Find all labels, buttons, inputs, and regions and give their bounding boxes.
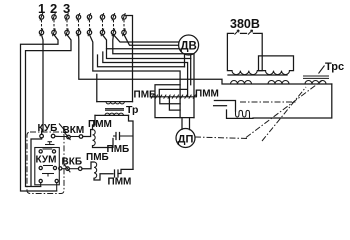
coil PMB bbox=[94, 162, 97, 178]
button KUB bbox=[40, 134, 55, 144]
wire enclosure to VKB bbox=[62, 168, 67, 170]
Tr secondary wire bbox=[95, 114, 129, 116]
wire DV bottom stub 2 bbox=[190, 55, 192, 59]
wire S7 staircase branch bbox=[113, 35, 194, 118]
transformer T1 primary box bbox=[227, 33, 262, 74]
enclosure boundary (dash-dot) bbox=[27, 132, 64, 194]
svg-text:ПМБ: ПМБ bbox=[86, 152, 109, 163]
coil PMM bbox=[93, 130, 96, 146]
svg-text:Тр: Тр bbox=[126, 104, 138, 116]
limit switch VKM actuator arrow bbox=[59, 124, 67, 133]
interlock contact PMB bbox=[113, 133, 126, 140]
svg-text:ПММ: ПММ bbox=[195, 89, 219, 100]
svg-text:ДП: ДП bbox=[178, 134, 194, 146]
interlock contact PMM bbox=[115, 170, 119, 177]
limit switch VKM contacts bbox=[67, 135, 83, 139]
contact on KUM box right edge bbox=[59, 167, 62, 170]
svg-text:ПММ: ПММ bbox=[108, 177, 132, 188]
svg-text:Трс: Трс bbox=[325, 61, 344, 73]
KUM bridge bar bbox=[42, 174, 54, 177]
Trs core bars bbox=[303, 76, 329, 78]
contact block lower hook 1 bbox=[160, 97, 180, 104]
controller KUM box bbox=[35, 148, 60, 185]
transformer Tr primary wire bbox=[97, 101, 133, 103]
transformer Trs winding bbox=[305, 81, 326, 84]
contact block inner bracket bbox=[159, 89, 186, 96]
wire hook staircase 4 bbox=[98, 55, 185, 67]
mechanical link diagonal 2 bbox=[262, 87, 306, 141]
KUM top contacts bbox=[39, 149, 56, 153]
wire PMM coil out to PMB interlock bbox=[93, 139, 114, 148]
secondary winding L2 bbox=[268, 81, 289, 84]
contact block lower hook 2 bbox=[169, 97, 180, 111]
KUM mid contacts bbox=[39, 166, 57, 170]
knife switch S1 bbox=[39, 13, 43, 36]
knife switch S5 bbox=[87, 13, 91, 36]
Tr secondary winding bumps bbox=[105, 113, 123, 115]
svg-text:380В: 380В bbox=[230, 17, 260, 31]
knife switch S7 bbox=[111, 13, 115, 36]
wire VKB to PMB coil bbox=[82, 162, 94, 169]
wire S5 staircase to contact block bbox=[90, 35, 181, 118]
wire secondary right side down bbox=[253, 84, 332, 118]
limit switch VKB contacts bbox=[64, 164, 82, 173]
svg-text:КУМ: КУМ bbox=[36, 155, 57, 166]
svg-text:ПММ: ПММ bbox=[88, 119, 112, 130]
wire S8 top bracket down to transformer Tr bbox=[126, 16, 132, 102]
label Trs with leader bbox=[319, 61, 345, 74]
wire S6 to motor DV bbox=[103, 35, 179, 49]
wire Tr primary left feed bbox=[96, 74, 98, 101]
knife switch S8 bbox=[122, 13, 126, 36]
resistor squiggle bbox=[236, 110, 250, 118]
contact block hatched band bbox=[150, 95, 197, 99]
wire contact block to motor DP 2 bbox=[189, 118, 191, 130]
KUM bottom contact exits bbox=[41, 183, 57, 191]
wire PMB interlock to rail bbox=[126, 135, 133, 137]
svg-text:ПМБ: ПМБ bbox=[107, 144, 130, 155]
wire PMB coil out to PMM interlock bbox=[94, 174, 113, 180]
wire DV bottom stub 1 bbox=[184, 54, 186, 66]
svg-text:3: 3 bbox=[63, 1, 70, 16]
wire phase3 S3 left rail bbox=[26, 35, 72, 187]
wire PMM block to resistor step 2 bbox=[214, 105, 227, 107]
wire PMM block to resistor step 1 bbox=[214, 101, 235, 112]
Tr core bbox=[105, 109, 124, 111]
wire S7 to motor DV bbox=[114, 35, 179, 42]
wire hook staircase 3 bbox=[103, 52, 188, 97]
wire Tr secondary left down bbox=[93, 115, 96, 129]
Tr primary winding bumps bbox=[106, 102, 124, 104]
svg-text:2: 2 bbox=[50, 1, 57, 16]
knife switch S6 bbox=[100, 13, 104, 36]
wire S6 staircase branch bbox=[107, 49, 191, 85]
wire S4 long line to transformer row bbox=[79, 35, 332, 84]
svg-text:ДВ: ДВ bbox=[180, 41, 197, 53]
contact block left bracket bbox=[155, 85, 194, 118]
wire KUB right to enclosure edge bbox=[55, 135, 61, 137]
motor DV bbox=[179, 35, 199, 55]
knife switch S2 bbox=[52, 13, 56, 36]
mechanical link diagonal 1 bbox=[246, 81, 322, 138]
wire KUB left bracket down bbox=[31, 138, 42, 186]
supply switch arrow 1 bbox=[235, 30, 240, 35]
wire phase1 S1 down to KUB button bbox=[42, 35, 44, 135]
transformer T2 primary box bbox=[259, 56, 294, 75]
svg-text:1: 1 bbox=[38, 1, 45, 16]
KUM bottom contacts bbox=[39, 179, 58, 182]
wire VKM to PMM coil bbox=[83, 130, 93, 137]
wire S8 blade to motor DV bbox=[124, 35, 179, 46]
starting resistor box bbox=[227, 110, 254, 118]
wire contact block to motor DP 1 bbox=[181, 118, 183, 130]
supply switch arrow 2 bbox=[248, 30, 253, 35]
wire phase2 S2 left rail bbox=[21, 35, 59, 191]
dash-dot line under T1 bbox=[240, 101, 296, 103]
mechanical link DP to Trs (dash-dot) bbox=[195, 137, 248, 139]
svg-text:ВКБ: ВКБ bbox=[62, 157, 83, 168]
transformer core bar bbox=[228, 74, 287, 76]
wire PMM interlock to rail bbox=[118, 169, 133, 173]
knife switch S3 bbox=[65, 13, 69, 36]
secondary winding L1 bbox=[231, 81, 252, 84]
wire enclosure to VKM bbox=[56, 136, 67, 138]
motor DP bbox=[176, 129, 195, 148]
wire Tr secondary right down to control rail bbox=[129, 115, 134, 169]
knife switch S4 bbox=[76, 13, 80, 36]
